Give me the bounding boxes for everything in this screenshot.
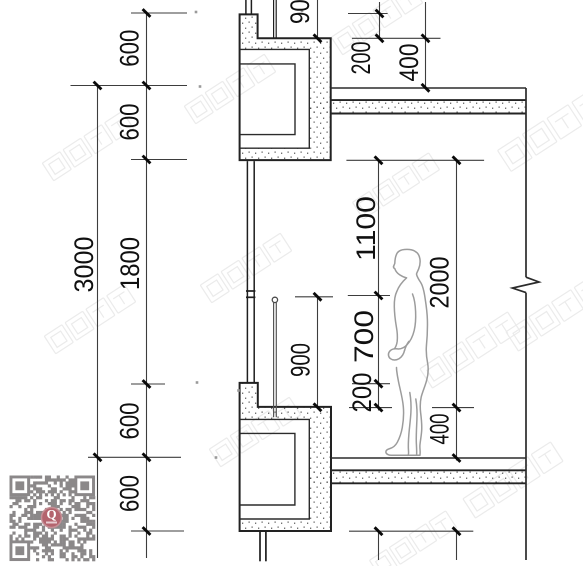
- lower bay lining: [240, 433, 295, 505]
- svg-text:400: 400: [425, 414, 455, 445]
- lower floor slab: [331, 470, 526, 483]
- svg-text:2000: 2000: [425, 257, 455, 309]
- stray gray dots: [195, 10, 304, 459]
- svg-text:200: 200: [346, 42, 376, 75]
- svg-text:600: 600: [115, 104, 145, 141]
- svg-text:400: 400: [394, 44, 424, 82]
- svg-text:900: 900: [285, 0, 315, 24]
- upper bay lining: [240, 64, 295, 135]
- upper floor finish line: [331, 87, 526, 89]
- svg-text:600: 600: [115, 30, 145, 67]
- top dimension line (opening head level): [346, 160, 484, 460]
- top-right dimension lines 200/400: [348, 2, 441, 89]
- upper window glazing: [246, 0, 252, 14]
- upper rail post: [274, 0, 277, 38]
- lower bay outline: [240, 383, 331, 531]
- svg-text:900: 900: [286, 343, 316, 377]
- upper bay window concrete section (hatch fills): [240, 14, 526, 160]
- dimension texts: [69, 0, 455, 512]
- upper bay inner edge: [240, 49, 310, 148]
- svg-text:Q: Q: [46, 507, 56, 522]
- svg-text:1100: 1100: [351, 196, 381, 261]
- svg-text:600: 600: [115, 475, 145, 512]
- svg-text:200: 200: [347, 373, 377, 413]
- 900 rail dimension lines: [295, 0, 333, 408]
- svg-text:600: 600: [115, 403, 145, 440]
- bottom dimension line: [349, 531, 473, 560]
- guard rail tube (section): [272, 297, 277, 302]
- QR code: [10, 476, 96, 562]
- svg-text:700: 700: [349, 310, 379, 363]
- lower floor finish line: [331, 457, 526, 459]
- lower window glazing: [260, 532, 266, 562]
- window transom: [246, 291, 255, 297]
- watermark group: [184, 54, 275, 124]
- svg-text:3000: 3000: [69, 237, 99, 293]
- right wall line: [512, 88, 539, 560]
- upper floor slab: [331, 100, 526, 113]
- human figure outline: [386, 249, 428, 455]
- middle window glazing: [247, 161, 254, 383]
- break symbol: [512, 277, 539, 292]
- lower bay inner edge: [240, 419, 310, 519]
- svg-text:1800: 1800: [115, 237, 145, 290]
- guard rail post: [274, 303, 277, 418]
- left dimension chain lines: [71, 12, 188, 558]
- upper bay outline: [240, 14, 331, 160]
- dimension tick marks: [143, 9, 151, 17]
- lower bay window concrete section (hatch fills): [240, 383, 526, 531]
